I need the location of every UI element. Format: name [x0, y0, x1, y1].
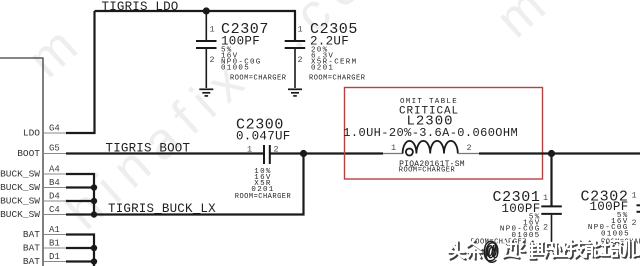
pin stub G5 — [43, 153, 66, 155]
wire B1 — [66, 247, 94, 249]
svg-text:0.047UF: 0.047UF — [236, 130, 291, 144]
red OMIT box — [345, 88, 543, 180]
pin stub D4 — [43, 200, 66, 202]
junction node LX — [300, 150, 307, 157]
svg-text:A1: A1 — [49, 225, 60, 235]
wire G4 to TIGRIS_LDO — [66, 11, 95, 133]
pin stub C4 — [43, 214, 66, 216]
pin stub B1 — [43, 247, 66, 249]
wire TIGRIS_BUCK_LX — [66, 154, 304, 215]
svg-text:ROOM=CHARGER: ROOM=CHARGER — [230, 74, 287, 82]
svg-text:ROOM=CHARGER: ROOM=CHARGER — [235, 193, 292, 201]
svg-text:2: 2 — [543, 223, 548, 233]
svg-text:ROOM=CHARGER: ROOM=CHARGER — [399, 167, 456, 175]
svg-text:01005: 01005 — [221, 64, 250, 72]
svg-text:1: 1 — [210, 25, 215, 35]
svg-text:BUCK_SW: BUCK_SW — [0, 182, 40, 193]
capacitor C2301 — [541, 154, 562, 248]
capacitor C2302 (at right edge) — [637, 205, 640, 212]
junction B1 — [91, 245, 97, 251]
junction B4 — [91, 184, 97, 190]
svg-text:BUCK_SW: BUCK_SW — [0, 169, 40, 180]
capacitor C2305 — [285, 10, 306, 88]
capacitor C2300 (series) — [264, 145, 270, 164]
wire A4 — [66, 174, 94, 188]
svg-text:BOOT: BOOT — [17, 148, 40, 159]
svg-text:BAT: BAT — [23, 229, 40, 240]
svg-text:D4: D4 — [49, 192, 60, 202]
svg-text:BUCK_SW: BUCK_SW — [0, 196, 40, 207]
svg-text:0201: 0201 — [311, 64, 334, 72]
svg-text:1: 1 — [298, 25, 303, 35]
svg-text:01005: 01005 — [601, 231, 630, 239]
svg-text:B4: B4 — [49, 178, 60, 188]
capacitor C2307 — [196, 11, 217, 88]
wire C2300 to L2300 — [270, 152, 383, 154]
inductor L2300 — [403, 141, 458, 156]
svg-text:2: 2 — [632, 218, 637, 228]
wire L2300 to output — [479, 152, 640, 154]
svg-text:LDO: LDO — [23, 128, 40, 139]
svg-text:@: @ — [483, 239, 497, 266]
svg-text:2: 2 — [467, 143, 472, 153]
wire A1 — [66, 235, 94, 249]
wire bus BAT — [93, 248, 95, 266]
ground under C2305 — [288, 89, 302, 96]
wire TIGRIS_LDO — [95, 10, 296, 12]
junction node output — [548, 150, 555, 157]
svg-text:2: 2 — [210, 55, 215, 65]
wire TIGRIS_BOOT — [66, 152, 264, 154]
diagonal watermark chinafix — [17, 0, 564, 241]
junction D1 — [91, 258, 97, 264]
svg-text:1.0UH-20%-3.6A-0.060OHM: 1.0UH-20%-3.6A-0.060OHM — [343, 126, 518, 140]
svg-text:1: 1 — [247, 145, 252, 155]
pin stub A1 — [43, 234, 66, 236]
svg-text:B1: B1 — [49, 239, 60, 249]
junction node TIGRIS_LDO / C2307 — [203, 7, 210, 14]
svg-text:1: 1 — [632, 191, 637, 201]
junction D4 — [91, 198, 97, 204]
svg-text:G5: G5 — [49, 144, 60, 154]
svg-text:A4: A4 — [49, 165, 60, 175]
junction C4 — [91, 211, 97, 217]
svg-text:1: 1 — [391, 143, 396, 153]
svg-text:G4: G4 — [49, 124, 60, 134]
svg-text:D1: D1 — [49, 252, 60, 262]
ground under C2307 — [199, 89, 213, 96]
svg-text:BAT: BAT — [23, 243, 40, 254]
wire D1 — [66, 260, 94, 262]
pin stub B4 — [43, 187, 66, 189]
svg-text:1: 1 — [543, 193, 548, 203]
svg-text:ROOM=CHARGER: ROOM=CHARGER — [309, 74, 366, 82]
connector J/U body — [0, 58, 43, 266]
pin stub L2300 pin1 — [383, 153, 403, 155]
pin stub G4 — [43, 132, 66, 134]
svg-text:C4: C4 — [49, 205, 60, 215]
svg-text:BAT: BAT — [23, 256, 40, 266]
pin stub L2300 pin2 — [458, 153, 479, 155]
wire D4 — [66, 200, 94, 202]
svg-text:BUCK_SW: BUCK_SW — [0, 209, 40, 220]
svg-text:2: 2 — [298, 55, 303, 65]
pin stub A4 — [43, 173, 66, 175]
pin stub D1 — [43, 261, 66, 263]
wire bus BUCK_SW — [93, 188, 95, 215]
wire B4 — [66, 186, 94, 188]
